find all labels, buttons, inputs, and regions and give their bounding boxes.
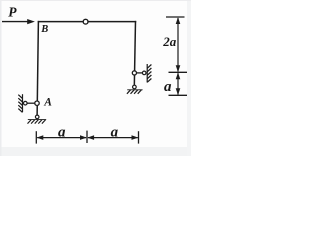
force P arrow (2, 19, 35, 24)
hinge on right column (132, 71, 136, 75)
right dimension line a segment (176, 73, 181, 96)
roller pin at right base (133, 85, 137, 89)
svg-text:P: P (8, 5, 17, 20)
wire right column corner down to base (134, 21, 135, 87)
svg-text:a: a (164, 79, 172, 95)
scan border top edge (0, 0, 191, 1)
scan border right band (187, 0, 191, 156)
hinge A (35, 101, 39, 105)
left wall (18, 94, 22, 112)
svg-text:A: A (43, 96, 52, 108)
wire top member B to right corner (38, 21, 136, 23)
right dimension 2a: top extension tick (166, 16, 185, 18)
roller pin at left base (35, 115, 39, 119)
wire left column B down to base (37, 21, 38, 117)
right dimension: middle tick (169, 71, 188, 73)
right dimension line 2a segment (176, 17, 181, 72)
pin at wall (24, 101, 28, 105)
right dimension: bottom tick (169, 94, 188, 96)
ground hatch left (28, 120, 47, 124)
svg-text:a: a (58, 125, 66, 141)
hinge on top member (83, 19, 88, 24)
link A to wall (24, 102, 36, 104)
pin at right wall (142, 71, 146, 75)
svg-text:2a: 2a (162, 34, 177, 49)
ground hatch right (127, 90, 143, 94)
bottom dimension line right a segment (87, 135, 138, 140)
right wall (147, 64, 151, 83)
scan border left edge (0, 0, 2, 156)
svg-text:a: a (111, 125, 119, 141)
bottom dimension: right tick (138, 131, 140, 143)
bottom dimension: left tick (35, 131, 37, 143)
link right hinge to wall (135, 72, 146, 74)
bottom dimension: middle tick (86, 131, 88, 143)
bottom dimension line left a segment (37, 135, 87, 140)
svg-text:B: B (40, 24, 48, 35)
scan border bottom band (0, 147, 191, 156)
